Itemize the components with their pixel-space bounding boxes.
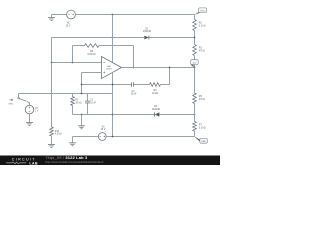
svg-text:15 V: 15 V <box>66 25 71 27</box>
diode D1 1N4148 <box>52 28 195 39</box>
wire R5 up to output <box>161 68 170 85</box>
svg-text:1 V: 1 V <box>35 111 39 113</box>
wire feedback top right <box>99 45 134 47</box>
ground for V3 <box>69 143 76 146</box>
junction supply cap branch <box>112 84 114 86</box>
junction supply VEE wire <box>112 136 114 138</box>
wire V1 to VCC corner <box>75 14 194 16</box>
junction out node <box>194 67 196 69</box>
diode D2 1N4148 <box>113 106 195 117</box>
svg-text:15 V: 15 V <box>101 129 106 131</box>
svg-text:3.3 kΩ: 3.3 kΩ <box>199 127 206 129</box>
junction VCC drop D1 wire <box>112 37 114 39</box>
junction plus drop input rail <box>81 93 83 95</box>
wire ground stem RC <box>81 115 83 126</box>
wire RC bottom rail <box>73 114 113 116</box>
svg-text:TL081: TL081 <box>106 69 113 71</box>
switch SW1 <box>8 94 29 106</box>
svg-text:LAB: LAB <box>29 161 38 165</box>
svg-text:10 nF: 10 nF <box>90 103 96 105</box>
wire feedback right vertical <box>133 46 135 68</box>
svg-text:SW1: SW1 <box>8 103 14 105</box>
wire V3 right to VEE rail <box>106 136 195 138</box>
resistor R6 470 Ohm <box>193 93 206 104</box>
wire feedback left vertical <box>72 46 74 63</box>
ground for RC network <box>78 126 85 129</box>
wire R10 to ground <box>51 136 53 144</box>
wire V2 to ground <box>29 114 31 122</box>
wire op-amp V- supply <box>112 72 114 136</box>
resistor R4 6.65 kOhm <box>85 44 100 56</box>
wire R3 to out node <box>194 56 196 68</box>
op-amp OA1 TL081 <box>102 57 122 79</box>
wire R6 to R7 <box>194 104 196 122</box>
svg-text:10 kΩ: 10 kΩ <box>75 103 81 105</box>
svg-text:3.3 kΩ: 3.3 kΩ <box>199 25 206 27</box>
junction R5 output <box>169 67 171 69</box>
svg-text:4.3 kΩ: 4.3 kΩ <box>55 134 62 136</box>
wire input rail <box>19 93 113 95</box>
wire R2 to R3 <box>194 31 196 45</box>
footer watermark bar <box>0 155 220 165</box>
svg-text:VCC: VCC <box>200 10 205 12</box>
node tag out <box>191 60 199 68</box>
svg-text:1N4148: 1N4148 <box>143 31 152 33</box>
wire right rail top <box>194 15 196 20</box>
junction left vertical input rail <box>51 93 53 95</box>
resistor R1 10 kOhm <box>71 94 82 115</box>
svg-text:6.65 kΩ: 6.65 kΩ <box>88 54 96 56</box>
svg-text:10 nF: 10 nF <box>131 94 137 96</box>
wire V3 left to ground <box>73 137 98 143</box>
ground for V1 <box>48 15 55 21</box>
junction D1 right rail <box>194 37 196 39</box>
wire R7 to VEE corner <box>194 131 196 137</box>
wire minus input <box>52 62 102 64</box>
junction feedback output <box>133 67 135 69</box>
svg-text:470 Ω: 470 Ω <box>199 50 205 52</box>
svg-text:https://www.circuitlab.com/c/p: https://www.circuitlab.com/c/pwde9zfk6p4… <box>45 161 104 164</box>
ground for V2 <box>26 122 33 125</box>
capacitor C1 10 nF <box>85 94 97 115</box>
resistor R2 3.3 kOhm <box>193 20 206 31</box>
voltage source V1 15 V <box>66 10 76 27</box>
ground for R10 <box>48 144 55 147</box>
junction D2 right rail <box>194 114 196 116</box>
svg-text:74qs_09 / 3122 Lab 3: 74qs_09 / 3122 Lab 3 <box>45 155 88 160</box>
junction RC ground <box>81 114 83 116</box>
resistor R5 10 kOhm <box>150 83 161 95</box>
wire capacitor branch <box>82 84 150 86</box>
wire left vertical mid <box>51 63 53 128</box>
svg-text:R10: R10 <box>55 131 60 133</box>
wire D1 corner down left <box>51 38 53 63</box>
wire op-amp V+ supply <box>112 15 114 63</box>
svg-text:1N4148: 1N4148 <box>152 109 161 111</box>
junction plus drop cap branch <box>81 84 83 86</box>
junction VCC drop top <box>112 14 114 16</box>
voltage source V2 1 V <box>25 105 39 114</box>
node tag VCC <box>195 8 207 15</box>
junction minus wire left <box>51 62 53 64</box>
junction feedback minus <box>72 62 74 64</box>
wire out node to R6 <box>194 68 196 94</box>
voltage source V3 15 V <box>98 126 106 140</box>
svg-text:VEE: VEE <box>201 141 206 143</box>
junction supply RC bottom <box>112 114 114 116</box>
resistor R10 4.3 kOhm <box>50 127 62 136</box>
svg-text:10 kΩ: 10 kΩ <box>152 93 158 95</box>
resistor R3 470 Ohm <box>193 45 206 56</box>
capacitor C2 10 nF <box>131 82 137 95</box>
wire plus input <box>82 73 102 94</box>
wire feedback top left <box>73 45 85 47</box>
resistor R7 3.3 kOhm <box>193 122 206 132</box>
wire output <box>122 67 195 69</box>
wire ground to V1 <box>52 14 67 16</box>
svg-text:470 Ω: 470 Ω <box>199 99 205 101</box>
node tag VEE <box>194 136 207 143</box>
svg-text:out: out <box>193 61 196 64</box>
